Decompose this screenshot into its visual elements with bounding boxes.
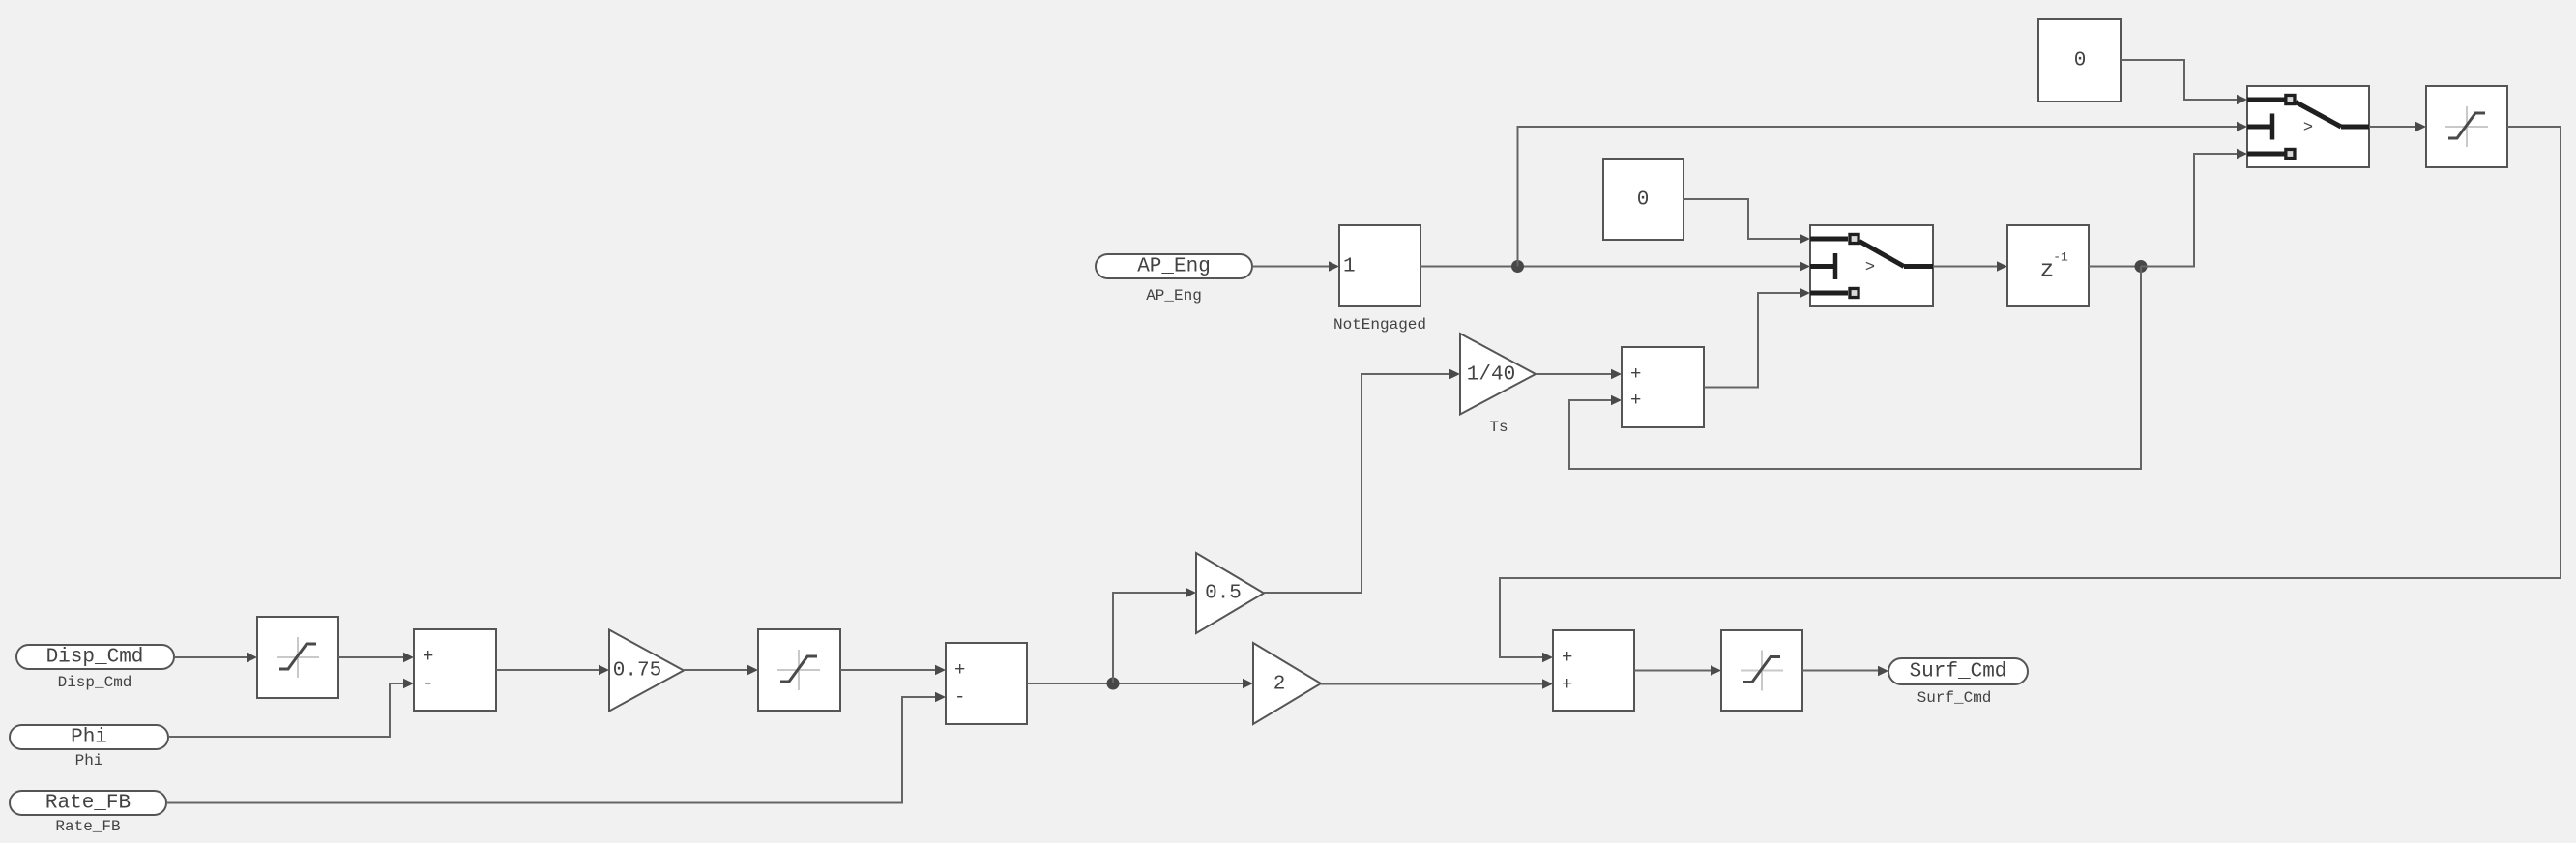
- svg-text:Phi: Phi: [75, 752, 103, 770]
- wire junction to switch1 input3: [2141, 149, 2247, 267]
- wire saturation top to sum3 input1: [1500, 127, 2561, 662]
- saturation block top: [2426, 86, 2507, 167]
- wire gain 2 to sum3: [1321, 679, 1553, 689]
- svg-text:>: >: [1865, 259, 1875, 277]
- wire junction up to gain 0.5: [1113, 588, 1196, 683]
- svg-text:1: 1: [1343, 256, 1356, 278]
- constant 0 upper: [2038, 19, 2121, 102]
- wire feedback junction to sum Ts input2: [1569, 267, 2141, 470]
- svg-text:0: 0: [2074, 50, 2087, 73]
- sum block 3: [1553, 630, 1634, 711]
- svg-text:AP_Eng: AP_Eng: [1137, 256, 1211, 278]
- svg-text:-: -: [954, 686, 965, 708]
- svg-text:0.5: 0.5: [1205, 583, 1242, 605]
- gain 1/40 Ts: [1460, 334, 1536, 436]
- svg-text:0: 0: [1637, 189, 1650, 212]
- wire unit delay to junction: [2089, 260, 2148, 273]
- wire saturation1 to sum1: [338, 653, 414, 663]
- subsystem NotEngaged: [1333, 225, 1426, 334]
- wire Disp_Cmd to saturation1: [174, 653, 257, 663]
- svg-text:Rate_FB: Rate_FB: [55, 818, 120, 835]
- constant 0 lower: [1603, 159, 1683, 240]
- svg-text:0.75: 0.75: [613, 660, 661, 683]
- wire sum2 to gain 2 with junction: [1027, 678, 1253, 690]
- svg-text:NotEngaged: NotEngaged: [1333, 316, 1426, 334]
- inport Phi: [10, 725, 168, 770]
- wire sum3 to saturation3: [1634, 665, 1721, 676]
- gain 0.75: [609, 630, 684, 712]
- wire constant 0 lower to switch2 input1: [1683, 199, 1810, 244]
- svg-text:Disp_Cmd: Disp_Cmd: [58, 674, 132, 691]
- wire switch2 to unit delay: [1933, 261, 2007, 272]
- wire gain 0.75 to saturation2: [684, 665, 758, 676]
- svg-text:+: +: [1630, 363, 1641, 385]
- saturation block 3: [1721, 630, 1802, 711]
- wire AP_Eng to NotEngaged: [1252, 261, 1339, 272]
- svg-text:Ts: Ts: [1489, 419, 1508, 436]
- wire switch1 to saturation top: [2369, 122, 2426, 132]
- switch2: [1810, 225, 1933, 306]
- svg-text:+: +: [423, 646, 433, 667]
- svg-text:z: z: [2040, 258, 2054, 284]
- wire saturation2 to sum2: [840, 665, 946, 676]
- wire saturation3 to outport: [1802, 666, 1888, 677]
- svg-text:+: +: [954, 659, 965, 681]
- inport Disp_Cmd: [16, 645, 174, 691]
- svg-text:AP_Eng: AP_Eng: [1146, 287, 1202, 305]
- svg-text:-: -: [423, 673, 433, 694]
- gain 0.5: [1196, 553, 1264, 633]
- saturation block 1: [257, 617, 338, 698]
- saturation block 2: [758, 629, 840, 711]
- outport Surf_Cmd: [1888, 658, 2028, 707]
- svg-text:1/40: 1/40: [1467, 364, 1515, 387]
- svg-text:2: 2: [1273, 674, 1286, 696]
- wire gain 1/40 to sum Ts: [1536, 369, 1622, 380]
- svg-text:Rate_FB: Rate_FB: [45, 793, 131, 815]
- wire NotEngaged to switch2 with junction: [1420, 260, 1810, 273]
- svg-text:+: +: [1630, 390, 1641, 411]
- switch1: [2247, 86, 2369, 167]
- wire sum Ts to switch2 input3: [1704, 288, 1810, 388]
- wire constant 0 upper to switch1 input1: [2121, 60, 2247, 104]
- svg-text:+: +: [1562, 674, 1572, 695]
- svg-text:Surf_Cmd: Surf_Cmd: [1910, 661, 2007, 683]
- svg-text:-1: -1: [2053, 250, 2068, 265]
- sum block Ts integrator: [1622, 347, 1704, 427]
- sum block 2: [946, 643, 1027, 724]
- wire gain 0.5 to gain 1/40: [1264, 369, 1460, 593]
- wire junction up to switch1 middle input: [1518, 122, 2248, 267]
- inport AP_Eng: [1096, 254, 1252, 305]
- wire sum1 to gain 0.75: [496, 665, 609, 676]
- svg-text:Surf_Cmd: Surf_Cmd: [1917, 689, 1992, 707]
- sum block 1: [414, 629, 496, 711]
- svg-text:>: >: [2303, 119, 2313, 137]
- wire Rate_FB to sum2 minus: [166, 692, 946, 803]
- wire Phi to sum1 minus: [168, 679, 414, 737]
- gain 2: [1253, 643, 1321, 724]
- svg-text:+: +: [1562, 647, 1572, 668]
- inport Rate_FB: [10, 791, 166, 835]
- svg-text:Disp_Cmd: Disp_Cmd: [46, 647, 144, 669]
- unit delay z-1: [2007, 225, 2089, 306]
- svg-text:Phi: Phi: [71, 727, 107, 749]
